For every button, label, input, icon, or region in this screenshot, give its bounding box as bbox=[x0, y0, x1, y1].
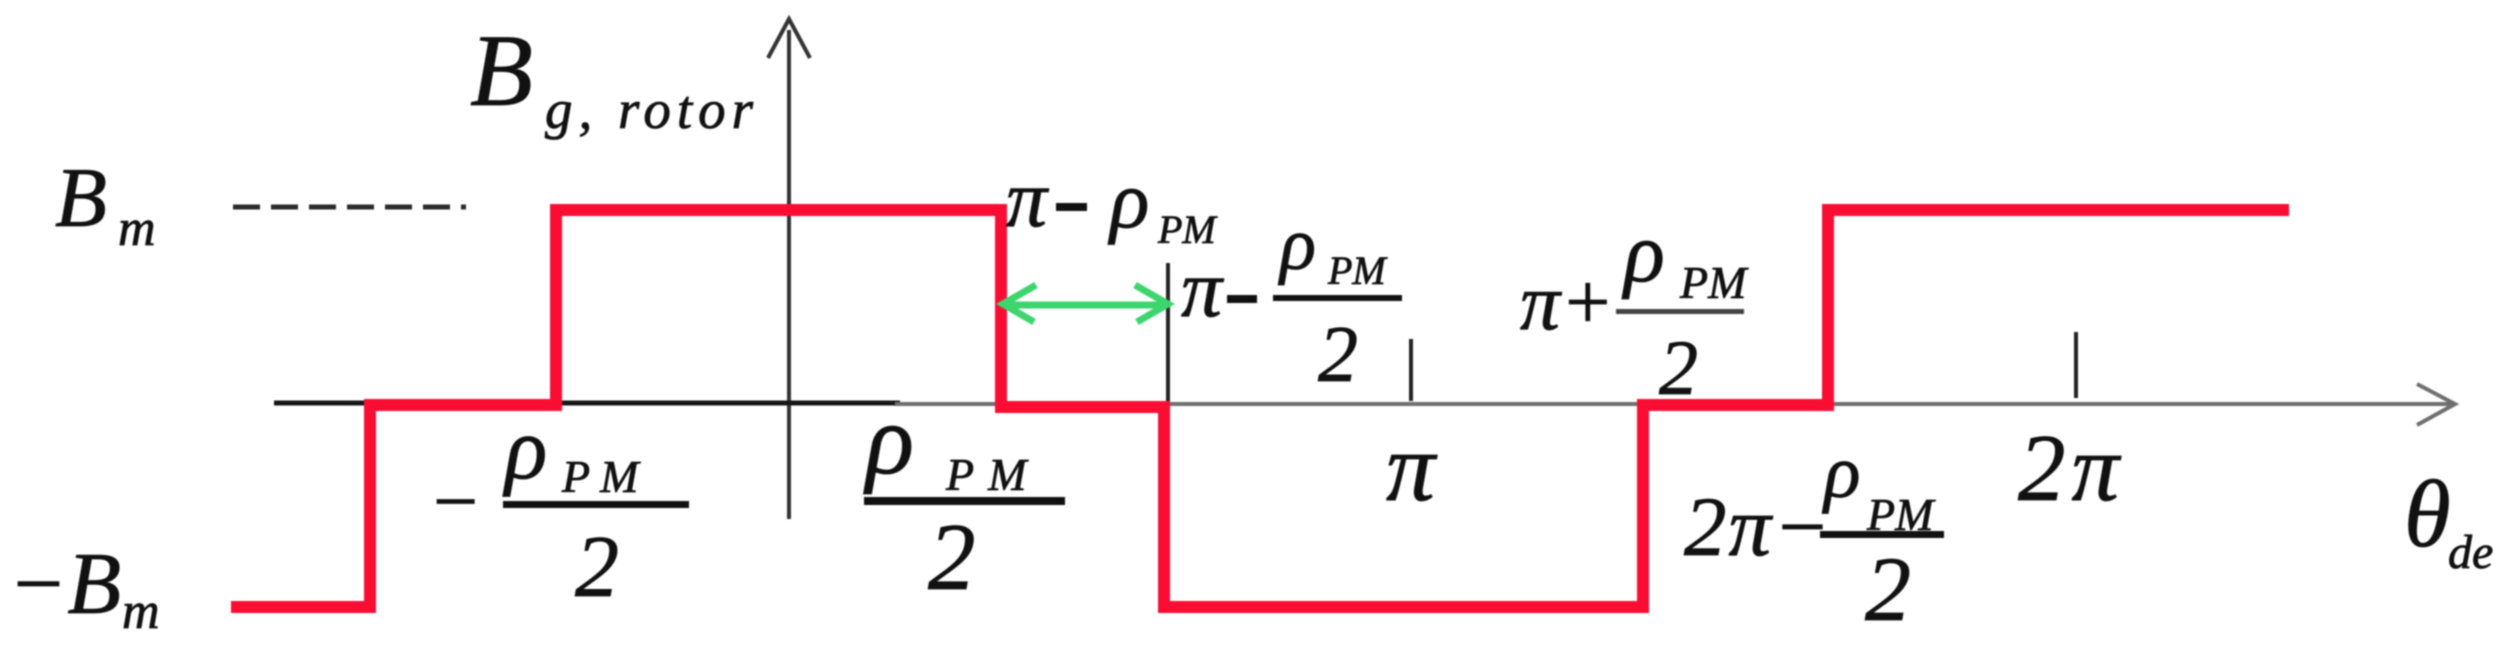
svg-text:2: 2 bbox=[1865, 538, 1911, 640]
svg-text:ρ: ρ bbox=[863, 384, 914, 495]
svg-text:PM: PM bbox=[561, 451, 648, 502]
svg-text:−: − bbox=[428, 458, 482, 546]
svg-text:π: π bbox=[1006, 153, 1049, 244]
svg-text:ρ: ρ bbox=[1278, 203, 1316, 286]
tick line at pi minus rho/2 bbox=[1166, 263, 1170, 401]
svg-text:2π−: 2π− bbox=[1684, 480, 1832, 574]
tick at pi bbox=[1409, 339, 1413, 401]
label minus rho PM over 2 : fraction bar bbox=[503, 501, 689, 508]
vertical axis line bbox=[787, 30, 791, 519]
label pi plus rho PM over 2 : fraction bar bbox=[1616, 309, 1744, 314]
label pi minus rho PM : minus bbox=[1056, 203, 1087, 211]
svg-text:ρ: ρ bbox=[1107, 154, 1149, 245]
svg-text:ρ: ρ bbox=[1621, 206, 1665, 300]
svg-text:2: 2 bbox=[1318, 311, 1358, 399]
svg-text:de: de bbox=[2448, 526, 2493, 579]
svg-text:ρ: ρ bbox=[502, 401, 547, 498]
svg-text:π: π bbox=[1386, 414, 1438, 522]
horizontal axis arrowhead bbox=[2417, 384, 2455, 425]
green arrow left head bbox=[1003, 285, 1036, 322]
svg-text:B: B bbox=[55, 151, 107, 245]
svg-text:−B: −B bbox=[8, 536, 121, 633]
label 2pi minus rho PM over 2 : fraction bar bbox=[1820, 531, 1944, 538]
svg-text:PM: PM bbox=[1327, 248, 1388, 293]
label pi minus rho PM over 2 : fraction bar bbox=[1273, 295, 1402, 301]
svg-text:π: π bbox=[1181, 243, 1224, 334]
svg-text:PM: PM bbox=[945, 449, 1040, 500]
vertical axis arrowhead bbox=[768, 19, 810, 58]
svg-text:2π: 2π bbox=[2018, 415, 2125, 521]
svg-text:2: 2 bbox=[928, 504, 976, 610]
svg-text:ρ: ρ bbox=[1822, 430, 1860, 514]
svg-text:B: B bbox=[470, 14, 533, 128]
red square waveform bbox=[231, 210, 2289, 607]
svg-text:PM: PM bbox=[1679, 257, 1749, 308]
svg-text:g, rotor: g, rotor bbox=[545, 79, 759, 140]
green double arrow shaft bbox=[1004, 302, 1167, 309]
svg-text:2: 2 bbox=[1659, 324, 1698, 411]
svg-text:2: 2 bbox=[575, 519, 619, 616]
dashed Bm level line bbox=[233, 205, 466, 210]
green arrow right head bbox=[1135, 285, 1168, 322]
svg-text:m: m bbox=[122, 583, 160, 640]
horizontal axis grey segment bbox=[895, 402, 2452, 406]
tick at 2 pi bbox=[2074, 332, 2078, 398]
label rho PM over 2 : fraction bar bbox=[864, 497, 1065, 505]
horizontal axis left black segment bbox=[274, 401, 900, 406]
svg-text:m: m bbox=[118, 200, 156, 257]
svg-text:π+: π+ bbox=[1520, 259, 1614, 347]
svg-text:θ: θ bbox=[2404, 461, 2451, 567]
